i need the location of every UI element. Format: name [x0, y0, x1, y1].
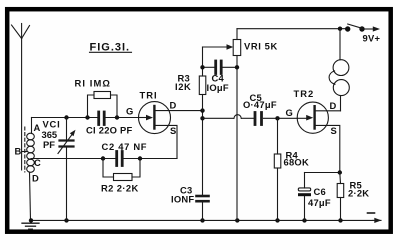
- svg-text:D: D: [330, 100, 337, 111]
- node dots tank wire: [64, 115, 119, 119]
- svg-text:B: B: [15, 146, 22, 157]
- svg-text:D: D: [170, 100, 177, 111]
- variable capacitor VC1 365PF: [42, 118, 76, 221]
- ground: [22, 223, 39, 229]
- wire drain TR1 to gate TR2 with hop over VR1 column: [203, 115, 298, 119]
- resistor R5 2.2K: [337, 173, 369, 221]
- svg-text:S: S: [170, 125, 176, 136]
- resistor R2 2.2K: [101, 159, 140, 194]
- svg-text:VRI 5K: VRI 5K: [244, 41, 278, 52]
- capacitor C6 47uF electrolytic: [298, 173, 331, 221]
- wire top supply rail: [237, 28, 345, 30]
- wire source junction to C6: [305, 172, 340, 174]
- switch S1: [345, 24, 365, 32]
- potentiometer VR1 5K: [203, 29, 278, 221]
- svg-text:D: D: [32, 173, 39, 184]
- svg-text:A: A: [34, 122, 41, 133]
- headphones: [329, 29, 349, 111]
- capacitor C1 220PF: [86, 112, 133, 136]
- transistor TR2 (FET): [286, 88, 341, 173]
- svg-text:VCI: VCI: [43, 119, 61, 130]
- svg-text:C2 47 NF: C2 47 NF: [102, 141, 148, 152]
- capacitor C2 47NF: [102, 141, 148, 166]
- wire tap C to source (C2 line): [31, 158, 115, 160]
- transistor TR1 (FET): [126, 90, 203, 159]
- svg-text:68OK: 68OK: [284, 157, 310, 168]
- resistor R1 1M: [75, 78, 118, 118]
- battery positive 9V+: [363, 26, 381, 43]
- antenna: [12, 24, 30, 171]
- svg-text:G: G: [126, 106, 133, 117]
- svg-text:PF: PF: [43, 139, 55, 150]
- svg-text:CI 22O PF: CI 22O PF: [86, 125, 133, 136]
- node dots on bottom rail: [29, 218, 343, 222]
- svg-text:IOμF: IOμF: [207, 82, 229, 93]
- svg-text:TRI: TRI: [140, 90, 158, 101]
- svg-text:S: S: [331, 125, 337, 136]
- svg-text:I2K: I2K: [175, 81, 191, 92]
- svg-text:G: G: [286, 107, 293, 118]
- capacitor C5 0.47uF: [243, 92, 277, 125]
- svg-text:FIG.3I.: FIG.3I.: [90, 41, 131, 53]
- svg-text:RI IMΩ: RI IMΩ: [75, 78, 112, 89]
- wire tank top (tap A to gate): [32, 117, 98, 119]
- svg-text:9V+: 9V+: [363, 33, 381, 44]
- svg-text:TR2: TR2: [294, 88, 315, 99]
- svg-text:O·47μF: O·47μF: [243, 99, 277, 110]
- figure title FIG.31.: [90, 41, 131, 53]
- battery minus terminal: [368, 213, 382, 223]
- svg-text:2·2K: 2·2K: [348, 188, 369, 199]
- wire bottom rail: [31, 219, 374, 221]
- resistor R4 680K: [274, 118, 309, 220]
- svg-text:47μF: 47μF: [308, 197, 331, 208]
- capacitor C3 10NF: [171, 111, 209, 221]
- svg-text:C6: C6: [314, 186, 326, 197]
- capacitor C4 10uF: [203, 61, 238, 93]
- resistor R3 12K: [175, 47, 206, 111]
- node drain / C3 top: [200, 108, 204, 120]
- svg-text:R2 2·2K: R2 2·2K: [101, 182, 139, 193]
- coil L1 with taps A B C D: [15, 118, 42, 221]
- svg-text:IONF: IONF: [171, 194, 194, 205]
